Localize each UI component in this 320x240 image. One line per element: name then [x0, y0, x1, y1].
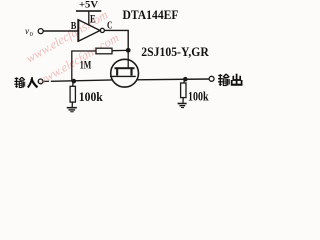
label 输出 (output) — [218, 74, 229, 86]
svg-text:E: E — [90, 12, 96, 26]
resistor R2 100k (left) — [72, 81, 74, 86]
svg-text:DTA144EF: DTA144EF — [123, 7, 179, 22]
glyph 出 — [231, 74, 242, 85]
junction node input/100k/1M — [72, 79, 77, 84]
resistor R1 1M — [72, 50, 96, 52]
FET gate line — [110, 75, 136, 77]
FET source leg — [116, 69, 118, 76]
svg-text:2SJ105-Y,GR: 2SJ105-Y,GR — [141, 45, 209, 59]
svg-text:0: 0 — [30, 31, 33, 38]
wire collector to node — [105, 30, 129, 50]
FET channel bar — [115, 67, 135, 69]
terminal v0 — [38, 29, 43, 34]
glyph 入 — [28, 77, 38, 87]
svg-text:v: v — [25, 26, 29, 36]
junction node output/100k — [183, 77, 188, 82]
ground (left) — [67, 107, 77, 112]
power rail bar — [76, 10, 101, 12]
wire R3 to ground — [182, 98, 184, 103]
resistor R3 100k (right) — [183, 80, 186, 83]
svg-text:100k: 100k — [188, 88, 209, 103]
terminal input — [38, 79, 43, 84]
svg-text:100k: 100k — [79, 89, 104, 104]
terminal output — [209, 76, 214, 81]
wire input to FET gate — [51, 80, 113, 81]
svg-text:+5V: +5V — [79, 1, 98, 11]
wire v0 to base — [44, 30, 79, 32]
wire 1M to input node riser — [71, 50, 73, 81]
wire emitter to rail — [88, 12, 90, 26]
watermark www.elecfans.com run B (upper middle) — [24, 7, 122, 88]
ground (right) — [178, 103, 187, 108]
wire R2 to ground — [71, 102, 73, 107]
junction node collector/1M/gate-drain — [126, 48, 131, 53]
digital transistor U1 DTA144EF triangle — [78, 20, 100, 41]
label 输入 (input) — [14, 77, 24, 88]
svg-text:B: B — [71, 21, 77, 32]
inversion bubble at collector output — [100, 28, 104, 32]
svg-text:1M: 1M — [80, 57, 92, 71]
wire FET source to output — [136, 78, 209, 81]
wire input terminal dash — [44, 80, 49, 82]
FET drain leg — [130, 69, 132, 76]
wire node down to FET drain — [127, 50, 129, 68]
FET Q1 2SJ105 envelope — [111, 59, 139, 87]
